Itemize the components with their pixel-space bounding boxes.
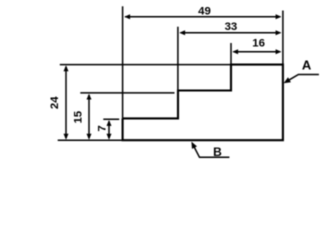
svg-text:33: 33 xyxy=(225,21,238,33)
svg-text:49: 49 xyxy=(198,6,211,18)
svg-text:24: 24 xyxy=(49,96,61,109)
svg-text:15: 15 xyxy=(73,110,85,123)
svg-text:B: B xyxy=(213,145,222,159)
svg-text:7: 7 xyxy=(96,125,108,131)
svg-text:16: 16 xyxy=(252,37,265,49)
svg-text:A: A xyxy=(302,57,312,72)
